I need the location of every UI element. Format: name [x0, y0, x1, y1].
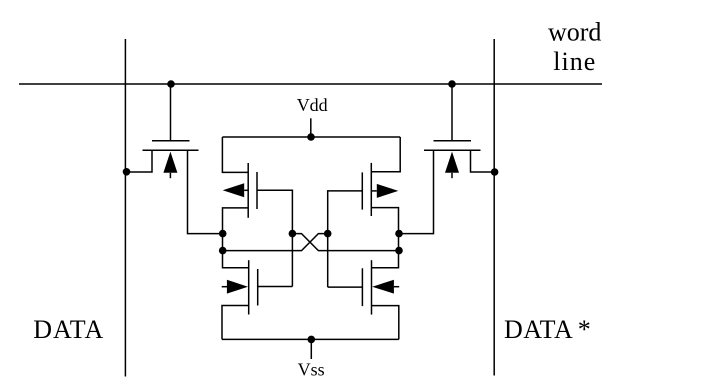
svg-text:word: word [548, 18, 601, 47]
svg-text:line: line [553, 47, 596, 76]
svg-text:DATA*: DATA* [504, 315, 591, 344]
svg-text:Vss: Vss [298, 359, 325, 379]
svg-text:Vdd: Vdd [297, 95, 328, 115]
svg-text:DATA: DATA [33, 315, 104, 344]
